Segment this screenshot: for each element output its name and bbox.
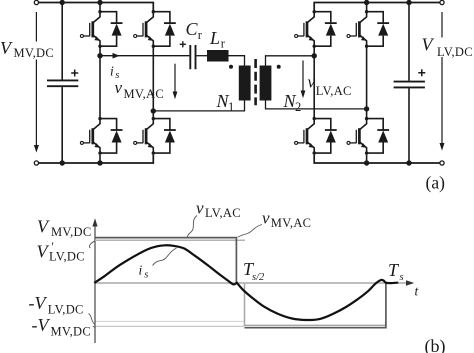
node: MV bottom rail junction (cap) [60, 160, 65, 165]
leader V_LV,DC' [89, 241, 95, 248]
transistor Q8 (IGBT) [347, 119, 367, 154]
wire: MV AC to C_r [100, 55, 189, 57]
svg-text:v: v [262, 209, 270, 228]
voltage arrow V_LV,DC [440, 12, 445, 151]
wire: leg A1 top stub [99, 3, 101, 12]
svg-text:LV,AC: LV,AC [205, 206, 241, 220]
transistor Q2 (IGBT) [134, 12, 154, 47]
diode D3 (antiparallel) [98, 117, 122, 155]
y axis [94, 226, 96, 344]
diode D7 (antiparallel) [313, 117, 337, 155]
svg-text:i: i [110, 64, 114, 79]
leader -V_MV,DC [93, 326, 96, 327]
diode D6 (antiparallel) [365, 10, 389, 48]
svg-text:(a): (a) [426, 173, 446, 193]
diode D2 (antiparallel) [152, 10, 176, 48]
svg-text:MV,DC: MV,DC [14, 46, 55, 60]
svg-text:-V: -V [32, 315, 51, 335]
waveform v_LV,AC positive level [95, 239, 245, 241]
leader v_LV,AC [187, 216, 197, 238]
node: MV top rail junction (cap) [60, 0, 65, 5]
transistor Q6 (IGBT) [347, 12, 367, 47]
wire: leg B2 midpoint run [366, 46, 368, 118]
svg-text:LV,DC: LV,DC [48, 302, 84, 316]
wire: leg A1 midpoint run [99, 46, 101, 118]
svg-text:MV,DC: MV,DC [51, 225, 92, 239]
voltage arrow v_LV,AC [301, 61, 306, 99]
transformer core [254, 59, 257, 105]
transistor Q4 (IGBT) [134, 119, 154, 154]
svg-text:v: v [308, 72, 316, 91]
svg-text:L: L [209, 28, 220, 48]
x axis arrow [406, 280, 414, 286]
transformer primary winding N1 [239, 66, 251, 101]
diode D5 (antiparallel) [313, 10, 337, 48]
diode D1 (antiparallel) [98, 10, 122, 48]
node: LV top rail junction (leg B2) [364, 0, 369, 5]
svg-text:LV,DC: LV,DC [49, 250, 85, 264]
wire: leg B2 bottom stub [366, 155, 368, 163]
node: LV AC input a [312, 53, 317, 58]
wire: MV top rail [36, 3, 153, 12]
transistor Q5 (IGBT) [295, 12, 315, 47]
svg-text:s: s [144, 270, 148, 281]
svg-text:-V: -V [29, 293, 48, 313]
x axis [95, 282, 407, 284]
svg-text:MV,DC: MV,DC [51, 325, 92, 339]
svg-text:LV,DC: LV,DC [437, 45, 473, 59]
wire: LV top rail [314, 3, 442, 12]
wire: leg A1 bottom stub [99, 155, 101, 163]
polarity dot secondary [277, 65, 281, 69]
diode D8 (antiparallel) [365, 117, 389, 155]
node: LV AC input b [364, 106, 369, 111]
node: LV top rail junction (cap) [406, 0, 411, 5]
curve i_s [95, 245, 397, 320]
terminal: MV- [34, 161, 38, 165]
svg-text:s: s [400, 272, 404, 283]
leader i_s [153, 248, 177, 266]
svg-text:r: r [221, 36, 226, 50]
wire: primary bottom [153, 101, 244, 111]
svg-text:MV,AC: MV,AC [124, 87, 165, 101]
waveform v_MV,AC negative level [245, 283, 386, 328]
wire: MV bottom rail [36, 155, 153, 163]
wire: secondary top [266, 56, 315, 66]
waveform v_MV,AC positive level and step [95, 238, 236, 283]
voltage arrow V_MV,DC [34, 12, 39, 153]
voltage arrow v_MV,AC [173, 64, 178, 99]
node: MV top rail junction (leg A1) [97, 0, 102, 5]
transformer secondary winding N2 [260, 66, 272, 101]
svg-text:MV,AC: MV,AC [271, 216, 312, 230]
diode D4 (antiparallel) [152, 117, 176, 155]
wire: leg B2 top stub [366, 3, 368, 12]
capacitor C_MV [47, 3, 78, 164]
node: MV bottom rail junction (leg A1) [97, 160, 102, 165]
svg-text:LV,AC: LV,AC [316, 84, 352, 98]
wire: leg A2 midpoint run [152, 46, 154, 118]
node: MV AC output a [97, 53, 102, 58]
wire: secondary bottom [266, 101, 367, 109]
level line -V_LV,DC [95, 320, 244, 322]
y axis arrow [92, 218, 97, 226]
svg-text:r: r [198, 28, 203, 42]
node: LV bottom rail junction (leg B2) [364, 160, 369, 165]
wire: L_r to primary [229, 56, 245, 66]
terminal: LV+ [440, 0, 444, 4]
capacitor C_r [180, 41, 207, 69]
inductor L_r [207, 50, 229, 62]
current arrow i_s [113, 53, 120, 59]
transistor Q3 (IGBT) [80, 119, 100, 154]
leader v_MV,AC [238, 225, 262, 238]
svg-text:C: C [186, 19, 199, 39]
wire: LV bottom rail [314, 155, 442, 163]
svg-text:s/2: s/2 [252, 272, 265, 283]
polarity dot primary [229, 65, 233, 69]
svg-text:i: i [139, 263, 143, 278]
svg-text:(b): (b) [425, 336, 446, 353]
node: LV bottom rail junction (cap) [406, 160, 411, 165]
svg-text:1: 1 [228, 100, 235, 114]
terminal: LV- [440, 161, 444, 165]
transistor Q7 (IGBT) [295, 119, 315, 154]
svg-text:v: v [115, 78, 123, 97]
leader -V_LV,DC [89, 314, 95, 325]
transistor Q1 (IGBT) [80, 12, 100, 47]
level line -V_MV,DC [95, 325, 244, 327]
waveform v_LV,AC step and negative level [245, 284, 386, 326]
terminal: MV+ [34, 0, 38, 4]
wire: leg B1 midpoint run [313, 46, 315, 118]
capacitor C_LV [394, 3, 426, 164]
svg-text:2: 2 [295, 100, 302, 114]
svg-text:v: v [196, 199, 204, 218]
node: MV AC output b [151, 108, 156, 113]
